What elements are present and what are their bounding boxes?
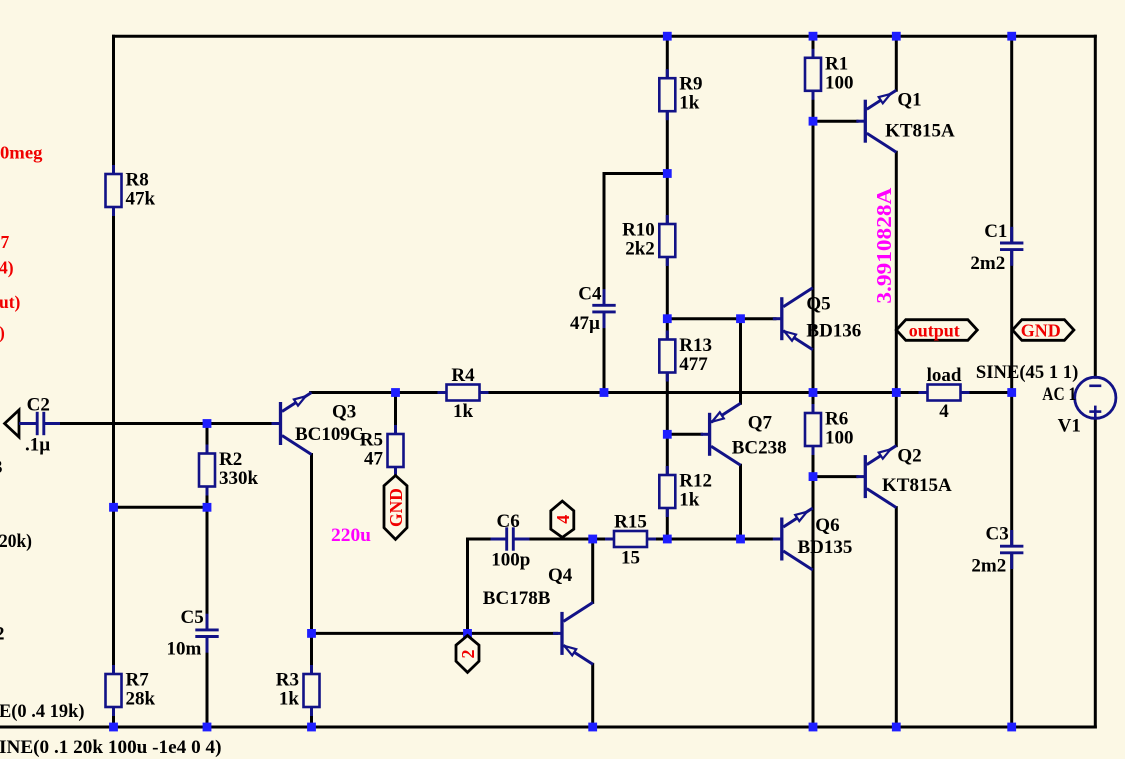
svg-text:C1: C1	[984, 221, 1007, 242]
svg-text:Q2: Q2	[897, 446, 921, 467]
junction node (312,633)	[307, 629, 316, 638]
junction node (813,121)	[809, 117, 818, 126]
svg-text:R6: R6	[825, 409, 848, 430]
transistor Q5 BD136	[773, 288, 862, 350]
wire R9-R12 column	[666, 36, 669, 539]
svg-text:2: 2	[458, 650, 478, 659]
svg-text:220u: 220u	[331, 525, 371, 546]
svg-text:7: 7	[1, 232, 10, 252]
directive fragment 2	[0, 624, 5, 645]
svg-text:KT815A: KT815A	[885, 120, 955, 141]
svg-text:C5: C5	[181, 607, 204, 628]
directive fragment )	[0, 323, 5, 343]
wire Q1 collector to Q2	[895, 152, 898, 445]
junction node (593,727)	[588, 723, 597, 732]
resistor R4	[438, 365, 489, 422]
junction node (604,392)	[600, 388, 609, 397]
directive fragment INE(...)	[0, 737, 221, 758]
resistor R8	[106, 165, 156, 216]
wire C1 C3 column	[1010, 36, 1013, 727]
directive fragment E(0 .4 19k)	[0, 701, 85, 722]
svg-text:R2: R2	[219, 449, 242, 470]
svg-text:10m: 10m	[167, 639, 202, 660]
directive fragment 4)	[0, 258, 14, 278]
wire C4 top horizontal	[604, 172, 667, 175]
svg-text:2: 2	[0, 624, 5, 645]
resistor R10	[622, 215, 675, 266]
capacitor C5	[167, 607, 219, 660]
junction node (740,539)	[736, 535, 745, 544]
svg-text:AC 1: AC 1	[1042, 384, 1076, 405]
junction node (207,424)	[203, 419, 212, 428]
transistor Q4 BC178B	[483, 565, 593, 664]
wire R5 drop	[394, 393, 397, 435]
svg-text:R8: R8	[126, 170, 149, 191]
svg-text:KT815A: KT815A	[882, 475, 952, 496]
wire right rail upper	[1094, 36, 1097, 377]
wire Q2 collector down	[895, 508, 898, 727]
transistor Q7 BC238	[701, 403, 787, 465]
svg-text:330k: 330k	[219, 468, 259, 489]
transistor Q3 BC109C	[272, 393, 364, 455]
svg-text:R4: R4	[451, 365, 475, 386]
svg-text:R7: R7	[126, 670, 150, 691]
resistor R5	[360, 425, 404, 476]
resistor R1	[805, 49, 854, 100]
wire Q3 collector column	[310, 455, 313, 728]
resistor R3	[276, 665, 320, 716]
junction node (813,392)	[809, 388, 818, 397]
directive fragment 7	[1, 232, 10, 252]
wire node B to left rail	[114, 506, 208, 509]
svg-text:4: 4	[939, 401, 949, 422]
directive fragment 3	[0, 457, 3, 478]
wire Q2 base	[813, 475, 857, 478]
svg-text:28k: 28k	[126, 689, 156, 710]
svg-text:R15: R15	[614, 512, 647, 533]
svg-text:3.9910828A: 3.9910828A	[872, 187, 896, 304]
svg-text:ut): ut)	[0, 292, 21, 312]
svg-text:C3: C3	[986, 524, 1009, 545]
wire Q7 base	[667, 433, 701, 436]
svg-text:100: 100	[825, 428, 854, 449]
junction node (468,633)	[463, 629, 472, 638]
voltage source V1	[976, 362, 1116, 437]
wire main mid rail	[311, 391, 1012, 394]
junction node (207,727)	[203, 723, 212, 732]
junction node (114,507)	[109, 503, 118, 512]
svg-text:BC238: BC238	[732, 438, 787, 459]
wire left rail	[112, 36, 115, 727]
svg-text:R13: R13	[679, 335, 712, 356]
svg-text:R10: R10	[622, 220, 655, 241]
svg-text:E(0 .4 19k): E(0 .4 19k)	[0, 701, 85, 722]
directive fragment 0meg	[0, 143, 43, 163]
wire C6 to R15	[468, 538, 615, 541]
svg-text:BC178B: BC178B	[483, 588, 551, 609]
svg-text:47µ: 47µ	[570, 313, 600, 334]
junction node (207,507)	[203, 503, 212, 512]
svg-text:C4: C4	[578, 284, 602, 305]
transistor Q6 BD135	[773, 508, 853, 570]
junction node (896,392)	[892, 388, 901, 397]
svg-text:V1: V1	[1058, 416, 1081, 437]
svg-text:R12: R12	[679, 471, 712, 492]
svg-text:.1µ: .1µ	[25, 435, 50, 456]
svg-text:47: 47	[364, 449, 384, 470]
net flag 2	[456, 636, 479, 673]
wire Q1 emitter up	[895, 36, 898, 90]
capacitor C6	[491, 511, 531, 571]
resistor R7	[106, 665, 156, 716]
svg-text:Q5: Q5	[806, 294, 830, 315]
junction node (896,727)	[892, 723, 901, 732]
svg-text:Q6: Q6	[815, 515, 839, 536]
annotation 220u	[331, 525, 371, 546]
svg-text:4: 4	[553, 515, 573, 524]
resistor R15	[605, 512, 656, 569]
resistor Rload	[919, 365, 970, 422]
transistor Q1 KT815A	[856, 90, 955, 153]
svg-text:47k: 47k	[126, 189, 156, 210]
junction node (114,727)	[109, 723, 118, 732]
net flag output	[896, 320, 977, 341]
junction node (667,539)	[663, 535, 672, 544]
wire bottom rail	[0, 726, 1095, 729]
junction node (396,392)	[391, 388, 400, 397]
input pin triangle	[5, 410, 22, 437]
junction node (1012,36)	[1007, 32, 1016, 41]
svg-text:Q3: Q3	[332, 401, 356, 422]
svg-text:Q4: Q4	[548, 565, 573, 586]
directive fragment 20k)	[0, 531, 32, 552]
capacitor C3	[971, 524, 1023, 577]
junction node (1012,392)	[1007, 388, 1016, 397]
junction node (813,477)	[809, 472, 818, 481]
svg-text:R9: R9	[679, 74, 702, 95]
svg-text:20k): 20k)	[0, 531, 32, 552]
junction node (312,727)	[307, 723, 316, 732]
svg-text:C6: C6	[497, 511, 520, 532]
wire C2 node to Q3 base	[58, 422, 273, 425]
svg-text:SINE(45 1 1): SINE(45 1 1)	[976, 362, 1078, 383]
wire Q4 collector drop	[591, 539, 594, 602]
wire Q7 collector down	[739, 465, 742, 539]
svg-text:INE(0 .1 20k 100u -1e4 0 4): INE(0 .1 20k 100u -1e4 0 4)	[0, 737, 221, 758]
svg-text:1k: 1k	[679, 93, 700, 114]
svg-text:3: 3	[0, 457, 3, 478]
svg-text:477: 477	[679, 354, 708, 375]
wire R1 Q5 R6 column	[812, 36, 815, 727]
svg-text:load: load	[927, 365, 962, 386]
svg-text:BC109C: BC109C	[295, 424, 364, 445]
svg-text:BD135: BD135	[798, 537, 853, 558]
svg-text:Q7: Q7	[748, 413, 773, 434]
svg-text:2k2: 2k2	[625, 239, 655, 260]
resistor R2	[199, 445, 259, 496]
svg-text:C2: C2	[27, 395, 50, 416]
net flag 4	[551, 501, 574, 537]
svg-text:BD136: BD136	[806, 320, 861, 341]
wire right rail lower	[1094, 418, 1097, 727]
wire node 2 horizontal	[312, 632, 557, 635]
capacitor C2	[21, 395, 60, 456]
svg-text:100p: 100p	[491, 550, 530, 571]
svg-text:0meg: 0meg	[0, 143, 43, 163]
wire C4 column	[603, 174, 606, 393]
junction node (667,319)	[663, 314, 672, 323]
directive fragment ut)	[0, 292, 21, 312]
wire node4 to Q5 base	[667, 317, 775, 320]
svg-text:GND: GND	[386, 488, 406, 527]
svg-text:1k: 1k	[279, 689, 300, 710]
capacitor C4	[570, 284, 616, 335]
svg-text:1k: 1k	[453, 401, 474, 422]
wire R15 to Q6 base	[647, 538, 775, 541]
junction node (667,434)	[663, 430, 672, 439]
ground flag GND right	[1012, 320, 1074, 341]
resistor R9	[659, 69, 702, 120]
wire Q1 base	[813, 120, 857, 123]
wire Q4 emitter drop	[591, 664, 594, 727]
svg-text:2m2: 2m2	[970, 253, 1005, 274]
svg-text:Q1: Q1	[897, 90, 921, 111]
wire R2 C5 column	[206, 424, 209, 728]
resistor R12	[659, 466, 712, 517]
svg-text:2m2: 2m2	[971, 556, 1006, 577]
wire top rail	[114, 35, 1096, 38]
wire Q7 emitter up	[739, 319, 742, 404]
junction node (1012,727)	[1007, 723, 1016, 732]
junction node (896,36)	[892, 32, 901, 41]
svg-text:): )	[0, 323, 5, 343]
current annotation 3.9910828A	[872, 187, 896, 304]
resistor R13	[659, 331, 712, 382]
ground flag GND under R5	[384, 476, 407, 540]
svg-text:GND: GND	[1021, 321, 1061, 341]
wire C6 left drop	[466, 539, 469, 633]
svg-text:100: 100	[825, 72, 854, 93]
resistor R6	[805, 404, 854, 455]
junction node (667,174)	[663, 169, 672, 178]
capacitor C1	[970, 221, 1023, 274]
junction node (740,319)	[736, 314, 745, 323]
junction node (813,36)	[809, 32, 818, 41]
transistor Q2 KT815A	[856, 446, 952, 508]
junction node (813,727)	[809, 723, 818, 732]
junction node (667,36)	[663, 32, 672, 41]
svg-text:1k: 1k	[679, 490, 700, 511]
svg-text:4): 4)	[0, 258, 14, 278]
svg-text:R3: R3	[276, 670, 299, 691]
svg-text:R1: R1	[825, 53, 848, 74]
junction node (593,539)	[588, 535, 597, 544]
svg-text:15: 15	[621, 548, 640, 569]
svg-text:output: output	[909, 321, 960, 341]
